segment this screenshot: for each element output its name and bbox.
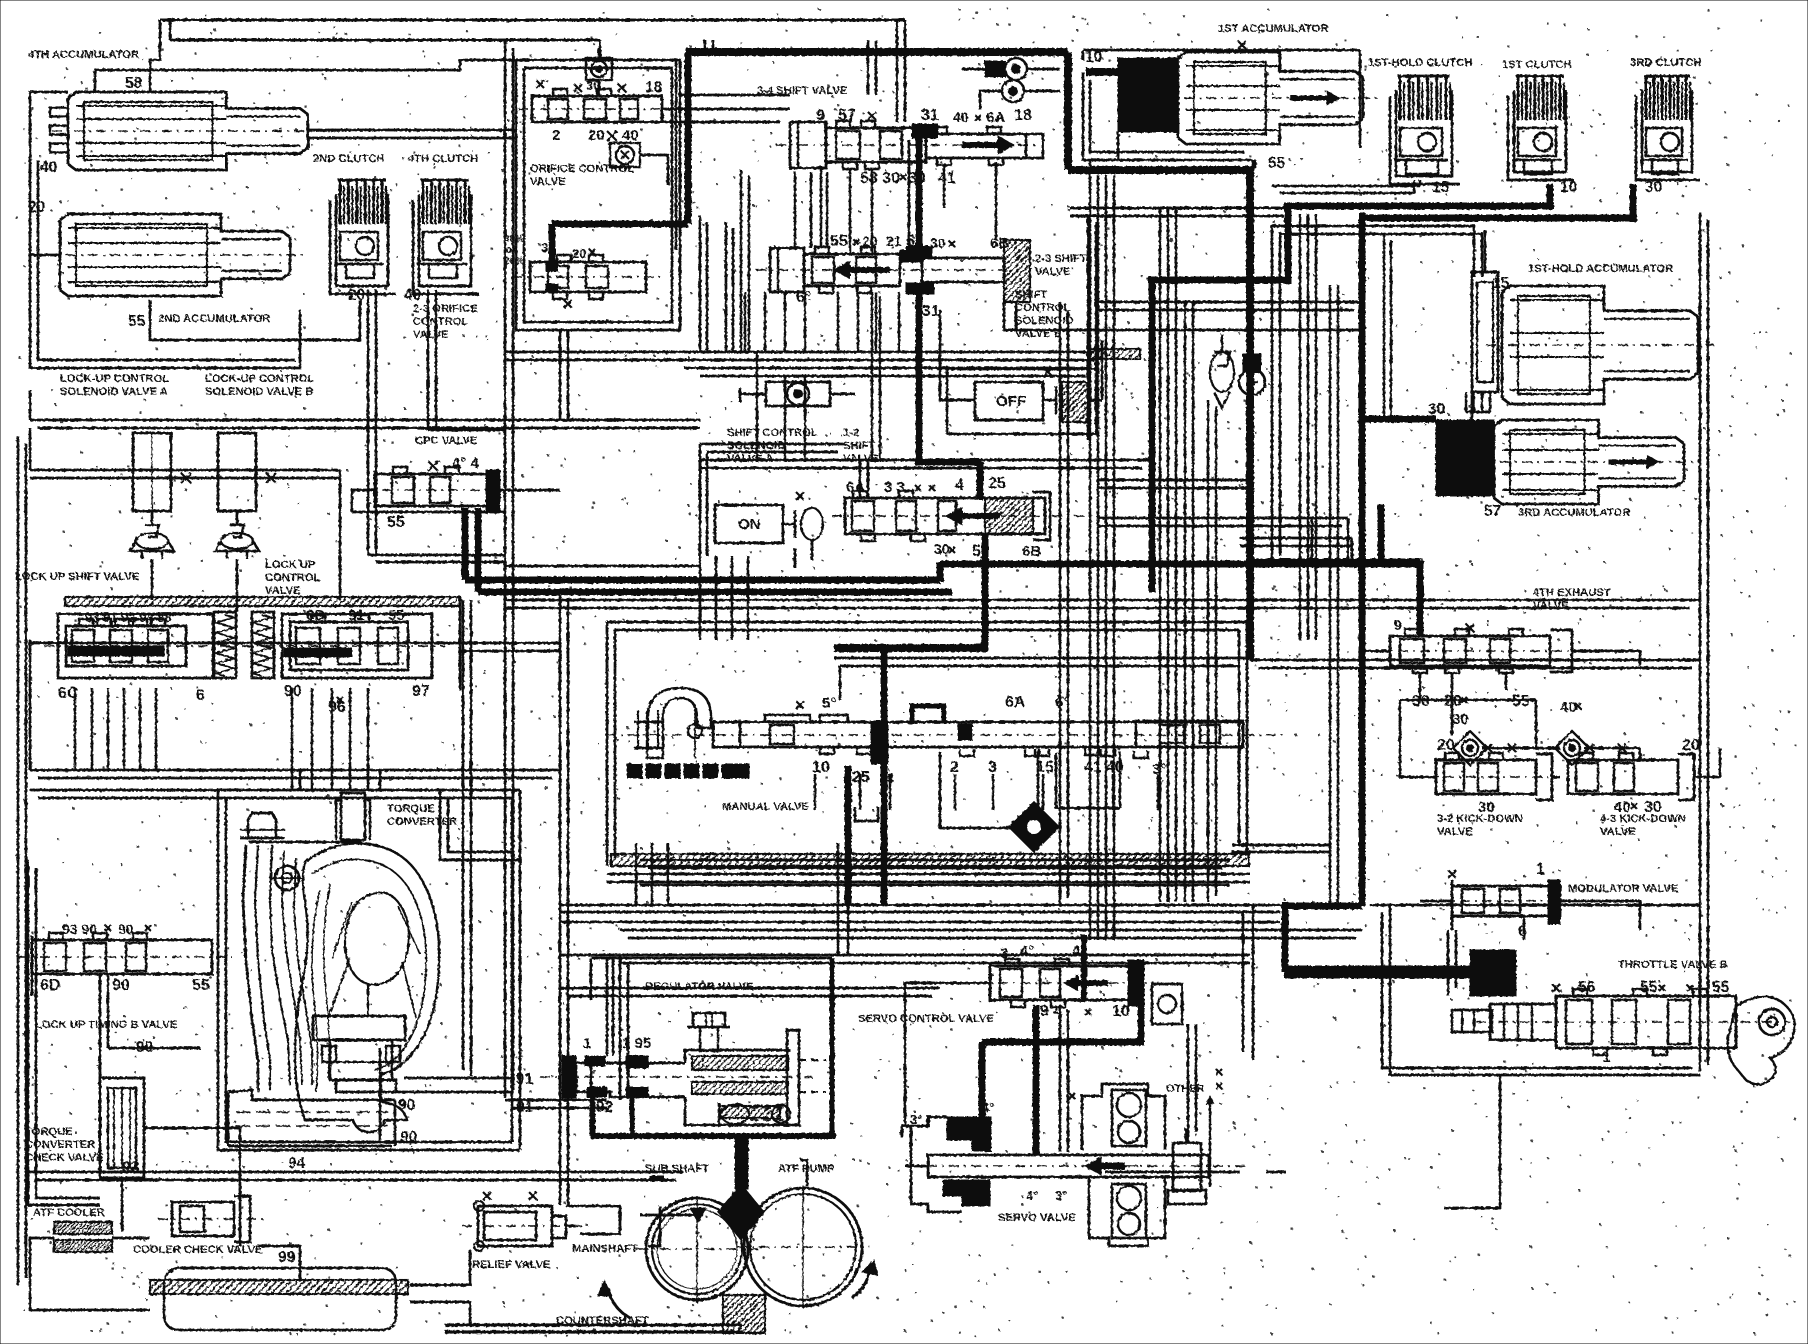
svg-text:LOCK-UP CONTROL: LOCK-UP CONTROL xyxy=(60,373,169,385)
svg-text:93 90: 93 90 xyxy=(62,921,97,937)
manual valve gear position boxes xyxy=(627,764,642,778)
horizontal pair y=1172 bottom left xyxy=(28,1171,683,1174)
regulator lower small piston xyxy=(718,1103,721,1125)
svg-text:SERVO VALVE: SERVO VALVE xyxy=(998,1212,1076,1224)
manual valve under-chambers xyxy=(940,752,1038,828)
valve 2-3 SHIFT VALVE xyxy=(770,248,804,292)
check valve below manual box xyxy=(1009,802,1060,853)
lock up valve dark spools xyxy=(68,646,164,656)
valve REGULATOR VALVE xyxy=(562,1056,576,1098)
throttle valve B left rod xyxy=(1452,1010,1492,1032)
torque converter top line xyxy=(249,841,362,844)
horizontal pair y=770 left xyxy=(30,769,560,772)
box around manual valve xyxy=(606,622,609,866)
torque converter left column xyxy=(243,845,258,1090)
svg-text:97: 97 xyxy=(412,683,430,700)
accumulator 4TH ACCUMULATOR xyxy=(68,92,308,114)
gear circle ATF pump xyxy=(744,1188,862,1306)
wires below clutches to trunk xyxy=(368,554,505,557)
clutch 1ST-HOLD CLUTCH xyxy=(1396,90,1452,176)
solenoid box ON xyxy=(715,505,783,543)
manual valve selector comb xyxy=(634,721,663,723)
long horizontal y=208 thin xyxy=(1070,207,1290,210)
svg-text:30: 30 xyxy=(1645,179,1662,196)
servo valve right bolt xyxy=(1173,1143,1201,1191)
wires modulator valve xyxy=(1420,900,1452,903)
servo valve shaft arrow xyxy=(1101,1163,1125,1170)
black block 3rd accumulator xyxy=(1436,420,1494,496)
wires right side verticals to throttle xyxy=(1390,905,1700,1075)
thick trunk from CPC valve down xyxy=(462,508,469,580)
misc wires top left to orifice xyxy=(460,60,516,70)
horizontal trunk y=930 xyxy=(620,929,1362,932)
valve ORIFICE CONTROL VALVE top xyxy=(532,96,662,122)
torque converter 91 90 wires xyxy=(404,1077,512,1080)
svg-text:25: 25 xyxy=(988,475,1006,492)
svg-text:3RD ACCUMULATOR: 3RD ACCUMULATOR xyxy=(1518,507,1630,519)
svg-text:57: 57 xyxy=(838,107,856,124)
svg-text:ATF COOLER: ATF COOLER xyxy=(33,1207,105,1219)
svg-text:55: 55 xyxy=(388,607,405,624)
svg-text:9: 9 xyxy=(1394,617,1402,633)
center vertical bundle xyxy=(1089,175,1092,940)
cam lever throttle valve B xyxy=(1728,996,1795,1084)
svg-text:2-3 SHIFT: 2-3 SHIFT xyxy=(1035,253,1087,265)
wire below regulator xyxy=(566,1205,620,1208)
svg-text:58: 58 xyxy=(125,75,143,92)
svg-text:CONTROL: CONTROL xyxy=(1015,302,1070,314)
thick vertical to 4th exhaust valve xyxy=(1417,562,1424,636)
manual valve thick port 1 bracket xyxy=(912,706,944,724)
svg-text:OTHER: OTHER xyxy=(1166,1083,1205,1095)
wires pump to regulator xyxy=(648,1206,660,1246)
wires y=845-852 right of manual box xyxy=(1232,844,1330,847)
torque converter bottom skirt xyxy=(228,1090,395,1100)
svg-text:5°: 5° xyxy=(822,695,836,712)
svg-text:30: 30 xyxy=(1452,711,1469,728)
svg-text:2-3 ORIFICE: 2-3 ORIFICE xyxy=(413,303,478,315)
wire 2nd clutch down xyxy=(367,290,370,555)
solenoid box OFF xyxy=(975,382,1043,420)
thick from 2-3 valve down to 1-2 valve port 25 xyxy=(916,290,923,462)
svg-text:20: 20 xyxy=(1437,737,1455,754)
wires under 1st-hold clutch thin xyxy=(1272,185,1420,188)
thick vertical through manual valve x=884 xyxy=(881,648,888,905)
wires from lockup area down-left xyxy=(29,640,32,770)
svg-text:15: 15 xyxy=(1432,179,1450,196)
wire solenoid A down xyxy=(151,559,154,600)
regulator valve port blocks xyxy=(585,1056,605,1066)
thick right-side feed to throttle xyxy=(1359,213,1366,906)
long horizontal bundle y=352 xyxy=(505,351,1094,354)
svg-text:40: 40 xyxy=(622,127,639,144)
right side pair y=302 xyxy=(1098,301,1360,304)
right side horizontal pairs y=518 xyxy=(1098,517,1348,520)
svg-text:96: 96 xyxy=(328,699,346,716)
horizontal trunk y=588 thin xyxy=(505,599,1700,602)
clutch 3RD CLUTCH xyxy=(1642,90,1692,172)
svg-text:31: 31 xyxy=(922,303,940,320)
svg-text:18: 18 xyxy=(1014,107,1032,124)
horizontal pair y=1100 left-of-regulator xyxy=(505,1099,607,1102)
regulator valve box xyxy=(830,958,835,1136)
wires servo valve right xyxy=(1230,1171,1240,1174)
wires servo area xyxy=(905,983,940,1126)
solenoid valve symbol right of ON box xyxy=(783,523,795,525)
wire 41 port down xyxy=(943,166,946,208)
svg-text:4°: 4° xyxy=(1020,943,1034,960)
wires 3-4 valve ports down xyxy=(849,170,852,254)
gear circle mainshaft xyxy=(646,1198,748,1300)
svg-text:4TH ACCUMULATOR: 4TH ACCUMULATOR xyxy=(28,49,139,61)
thick wire into throttle valve B xyxy=(1285,966,1485,978)
svg-text:1: 1 xyxy=(1602,1049,1611,1066)
thick stub 10 into 1st accumulator black block xyxy=(1086,68,1118,76)
svg-text:55: 55 xyxy=(1712,979,1730,996)
svg-text:31: 31 xyxy=(921,107,939,124)
vertical trunk x=560 xyxy=(559,592,562,1205)
wire network middle-left horizontals xyxy=(30,469,340,472)
svg-text:40: 40 xyxy=(1614,799,1631,816)
solenoid valve symbol right of OFF box xyxy=(1043,399,1056,401)
svg-text:4° 4: 4° 4 xyxy=(452,455,480,472)
torque converter extra inner curves xyxy=(312,890,320,1092)
box borders around 2-3 valve region xyxy=(699,216,702,352)
wire right of torque converter xyxy=(470,600,473,1076)
svg-text:of: of xyxy=(506,245,516,256)
svg-text:6C: 6C xyxy=(58,685,79,702)
svg-text:56: 56 xyxy=(1578,979,1596,996)
valve SERVO CONTROL VALVE xyxy=(989,962,992,1002)
svg-text:40: 40 xyxy=(40,159,57,176)
oil pan xyxy=(164,1268,396,1330)
svg-text:4°: 4° xyxy=(1026,1188,1038,1203)
svg-text:3: 3 xyxy=(1000,945,1008,962)
manual valve spool xyxy=(713,722,1243,747)
accumulator 2ND ACCUMULATOR xyxy=(60,214,290,237)
svg-text:10: 10 xyxy=(1560,179,1577,196)
svg-text:6B: 6B xyxy=(990,235,1009,252)
svg-text:3°: 3° xyxy=(1055,1188,1067,1203)
svg-text:6A: 6A xyxy=(986,109,1005,126)
svg-text:MODULATOR VALVE: MODULATOR VALVE xyxy=(1568,883,1679,895)
svg-text:57: 57 xyxy=(1484,503,1501,520)
check symbol right of servo control valve xyxy=(1152,984,1182,1024)
svg-text:TORQUE: TORQUE xyxy=(25,1126,73,1138)
valve 4TH EXHAUST VALVE xyxy=(1390,636,1550,666)
thick clutch feed lines xyxy=(1149,276,1156,592)
wire cpc to trunk xyxy=(500,489,560,492)
svg-text:6: 6 xyxy=(196,687,205,704)
svg-text:LOCK UP: LOCK UP xyxy=(265,559,316,571)
valve 2-3 orifice control valve (second orifice valve) xyxy=(530,262,646,292)
svg-text:CONTROL: CONTROL xyxy=(413,316,468,328)
svg-text:VALVE: VALVE xyxy=(265,585,301,597)
arrow pump rotation xyxy=(852,1268,870,1298)
verticals from 3-4 valve down to 2-3 area xyxy=(740,170,743,352)
thick elbow inside orifice box xyxy=(685,52,692,224)
svg-text:4TH EXHAUST: 4TH EXHAUST xyxy=(1533,587,1611,599)
right side pair y=480 xyxy=(1098,479,1250,482)
valve 4-3 KICK-DOWN VALVE xyxy=(1568,760,1678,794)
svg-text:6D: 6D xyxy=(40,977,60,994)
svg-text:LOCK-UP CONTROL: LOCK-UP CONTROL xyxy=(205,373,314,385)
svg-text:TORQUE: TORQUE xyxy=(387,803,435,815)
wire horizontals y=470 left of CPC xyxy=(352,511,505,514)
valve COOLER CHECK VALVE xyxy=(172,1202,234,1236)
check valve left of OFF box xyxy=(766,382,830,406)
servo valve shaft xyxy=(928,1155,1209,1177)
svg-text:3: 3 xyxy=(988,759,997,776)
svg-text:30: 30 xyxy=(586,78,600,93)
svg-text:CONTROL: CONTROL xyxy=(265,572,320,584)
svg-text:1ST-HOLD ACCUMULATOR: 1ST-HOLD ACCUMULATOR xyxy=(1528,263,1673,275)
valve LOCK UP TIMING B VALVE xyxy=(31,936,34,996)
wires OFF solenoid to 2-3 valve xyxy=(1101,340,1104,400)
box around ON solenoid xyxy=(700,443,845,446)
svg-text:VALVE: VALVE xyxy=(530,176,566,188)
valve TORQUE CONVERTER CHECK VALVE xyxy=(100,1078,144,1178)
wires y=643-660 horizontal group xyxy=(30,642,560,645)
svg-text:94: 94 xyxy=(288,1155,306,1172)
solenoid LOCK-UP CONTROL SOLENOID VALVE A xyxy=(133,433,171,511)
pump junction diamond xyxy=(718,1184,764,1240)
svg-text:VALVE: VALVE xyxy=(1035,266,1071,278)
svg-text:ORIFICE CONTROL: ORIFICE CONTROL xyxy=(530,163,634,175)
svg-text:SOLENOID VALVE B: SOLENOID VALVE B xyxy=(205,386,313,398)
svg-text:THROTTLE VALVE B: THROTTLE VALVE B xyxy=(1618,959,1728,971)
vertical cylinder left of 1st-hold accumulator xyxy=(1472,272,1498,392)
svg-text:10: 10 xyxy=(812,759,830,776)
torque converter hub circle xyxy=(275,866,299,890)
servo valve left bracket xyxy=(911,1117,962,1212)
wire servo valve bottom to right xyxy=(1105,1171,1230,1174)
wires 4th exhaust area xyxy=(1362,650,1390,653)
svg-text:MANUAL VALVE: MANUAL VALVE xyxy=(722,801,810,813)
wires above 1-2 valve xyxy=(794,548,797,568)
svg-text:30: 30 xyxy=(1478,799,1495,816)
svg-text:1: 1 xyxy=(583,1035,591,1052)
wires 2-3 valve ports down xyxy=(744,292,747,352)
svg-text:30: 30 xyxy=(541,240,555,255)
wire left box around TC xyxy=(28,860,100,1205)
svg-text:20: 20 xyxy=(1682,737,1700,754)
thick trunk from orifice valve to 1st accumulator xyxy=(686,48,1068,56)
wire vertical right of orifice box xyxy=(675,60,678,250)
wire lock-up solenoid feed from orifice box xyxy=(559,330,562,420)
thick wire regulator to pump xyxy=(735,1139,748,1189)
pilot valve pair near x=1230 xyxy=(1221,334,1224,352)
solenoid LOCK-UP CONTROL SOLENOID VALVE B xyxy=(218,433,256,511)
thick line under 1-2 shift valve xyxy=(982,534,989,650)
servo valve right guide line xyxy=(1209,1098,1211,1187)
horizontal trunk y=905 xyxy=(560,904,1285,907)
wire bundle below 1-2 valve to manual box xyxy=(699,556,702,640)
wire 55 from 1st accumulator down xyxy=(1254,160,1257,168)
regulator port drop wires xyxy=(591,1097,596,1133)
svg-text:1ST-HOLD CLUTCH: 1ST-HOLD CLUTCH xyxy=(1368,57,1472,69)
svg-text:90: 90 xyxy=(118,921,134,937)
wires around 2-3 orifice box xyxy=(680,94,790,97)
wire enclosure around accumulators xyxy=(95,70,460,92)
svg-text:LOCK UP SHIFT VALVE: LOCK UP SHIFT VALVE xyxy=(15,571,140,583)
wire between check balls xyxy=(1482,747,1560,750)
svg-text:6A: 6A xyxy=(1005,694,1026,711)
countershaft dark line xyxy=(445,1323,742,1326)
svg-text:10: 10 xyxy=(1085,49,1102,66)
arrow countershaft xyxy=(608,1288,630,1318)
torque converter outer dome xyxy=(295,843,439,1132)
wire top to 3-4 valve xyxy=(704,40,707,52)
svg-text:1ST ACCUMULATOR: 1ST ACCUMULATOR xyxy=(1218,23,1328,35)
svg-text:1-2: 1-2 xyxy=(843,427,859,439)
manual valve selector gate xyxy=(647,688,711,758)
svg-text:SOLENOID VALVE A: SOLENOID VALVE A xyxy=(60,386,168,398)
svg-text:90: 90 xyxy=(400,1129,417,1146)
manual valve bottom port bumps xyxy=(820,747,834,754)
svg-text:21: 21 xyxy=(886,233,902,249)
valve LOCK UP CONTROL VALVE body xyxy=(282,614,432,678)
svg-text:4: 4 xyxy=(955,477,964,494)
torque converter mid box xyxy=(313,1016,405,1040)
valve THROTTLE VALVE B xyxy=(1476,1021,1790,1023)
accumulator 3RD ACCUMULATOR xyxy=(1494,420,1684,444)
svg-text:18: 18 xyxy=(645,79,663,96)
wires from black block bottom xyxy=(1117,132,1120,160)
svg-text:3°: 3° xyxy=(910,1112,922,1127)
wires kick-down valves xyxy=(1400,700,1436,777)
svg-text:CPC VALVE: CPC VALVE xyxy=(415,435,478,447)
svg-text:55: 55 xyxy=(1640,979,1658,996)
thick from 3rd accumulator block left xyxy=(1362,416,1436,423)
svg-text:55: 55 xyxy=(387,514,405,531)
verticals x=1060 and 1208 xyxy=(1059,302,1062,905)
servo valve bottom mechanism xyxy=(1089,1177,1165,1246)
svg-text:30: 30 xyxy=(1428,401,1445,418)
thick vertical from 3-4 valve port 31 to 2-3 valve xyxy=(916,136,923,248)
box around orifice control valves xyxy=(516,60,680,330)
ball check valves right of 3-4 valve xyxy=(985,61,1005,77)
wires manual valve bottom ports xyxy=(814,774,817,810)
wire box around 1st accumulator xyxy=(1083,72,1252,160)
clutch 2ND CLUTCH xyxy=(336,194,388,286)
thick below 3rd accumulator block xyxy=(1378,504,1385,564)
wires around OFF solenoid xyxy=(1088,399,1102,402)
wire horizontals y=560 area xyxy=(505,565,700,568)
svg-text:2ND ACCUMULATOR: 2ND ACCUMULATOR xyxy=(158,313,270,325)
thick servo control feed xyxy=(1138,1002,1145,1042)
wire solenoid B down xyxy=(236,559,239,612)
valve 3-2 KICK-DOWN VALVE xyxy=(1436,760,1536,794)
torque converter box wires xyxy=(218,790,520,1150)
servo valve top mechanism xyxy=(1082,1084,1165,1150)
wire regulator feed from pump top xyxy=(739,1206,742,1226)
svg-text:30: 30 xyxy=(1644,799,1662,816)
svg-text:SOLENOID: SOLENOID xyxy=(1015,315,1073,327)
valve 3-4 SHIFT VALVE xyxy=(790,122,826,168)
valve RELIEF VALVE xyxy=(478,1206,552,1246)
wire from 4th accumulator to top xyxy=(169,20,172,40)
extra horizontals y=922,963 xyxy=(560,921,1280,924)
svg-text:LOCK UP TIMING B VALVE: LOCK UP TIMING B VALVE xyxy=(35,1019,178,1031)
check valve under orifice valve xyxy=(610,143,640,167)
wires torque converter feeds xyxy=(440,790,520,860)
box around OFF solenoid xyxy=(947,369,1098,434)
svg-text:VALVE: VALVE xyxy=(1533,600,1569,612)
wire y=700 right xyxy=(1400,699,1536,702)
svg-text:SERVO CONTROL VALVE: SERVO CONTROL VALVE xyxy=(858,1013,994,1025)
svg-text:5: 5 xyxy=(972,543,981,560)
svg-text:91: 91 xyxy=(348,607,365,624)
wire top second xyxy=(170,39,600,42)
left vertical pair far left xyxy=(17,436,20,1285)
svg-text:1ST CLUTCH: 1ST CLUTCH xyxy=(1502,59,1572,71)
torque converter inner egg xyxy=(345,892,409,984)
svg-text:40: 40 xyxy=(953,109,969,125)
svg-text:6: 6 xyxy=(1518,923,1527,940)
svg-text:90: 90 xyxy=(398,1097,415,1114)
clutch 1ST CLUTCH xyxy=(1514,90,1566,172)
svg-text:2ND CLUTCH: 2ND CLUTCH xyxy=(313,153,384,165)
svg-text:99: 99 xyxy=(278,1249,296,1266)
black block 1st accumulator xyxy=(1118,58,1178,132)
svg-text:COOLER CHECK VALVE: COOLER CHECK VALVE xyxy=(133,1244,263,1256)
thick horizontal inside manual box xyxy=(834,644,988,652)
manual valve inner box right xyxy=(834,657,1247,660)
svg-text:55: 55 xyxy=(128,313,146,330)
wires bottom area xyxy=(379,1048,382,1140)
svg-text:10: 10 xyxy=(1112,1003,1130,1020)
svg-text:55: 55 xyxy=(192,977,210,994)
wire top left double xyxy=(160,19,905,22)
svg-text:3 3: 3 3 xyxy=(884,479,905,496)
svg-text:9: 9 xyxy=(816,107,825,124)
svg-text:MAINSHAFT: MAINSHAFT xyxy=(572,1243,638,1255)
svg-text:20: 20 xyxy=(588,127,605,144)
svg-text:40: 40 xyxy=(1560,699,1577,716)
wires accumulator 1st-hold xyxy=(1484,230,1487,262)
left feeder horizontals y=420s xyxy=(30,419,700,422)
svg-text:6B: 6B xyxy=(1022,543,1041,560)
svg-text:ON: ON xyxy=(738,516,761,533)
wires top right box xyxy=(1359,50,1362,148)
wires manual valve lower horizontals xyxy=(640,859,1230,862)
svg-text:1 95: 1 95 xyxy=(622,1035,651,1052)
svg-text:20: 20 xyxy=(572,246,586,261)
accumulator 1ST-HOLD ACCUMULATOR xyxy=(1502,286,1698,317)
svg-text:91: 91 xyxy=(516,1071,534,1088)
right bundle x=1300 xyxy=(1299,214,1302,640)
wire 4th clutch down xyxy=(427,290,430,430)
horizontal trunk y=955 xyxy=(560,954,1250,957)
right vertical trunk x=1700 xyxy=(1699,212,1702,1072)
svg-text:SHIFT: SHIFT xyxy=(1015,289,1047,301)
svg-text:VALVE: VALVE xyxy=(1437,826,1473,838)
valve CPC VALVE xyxy=(374,470,377,508)
wires 1st-hold accumulator cylinder to trunk xyxy=(1272,226,1474,562)
fingers below 1st-hold cylinder xyxy=(1465,392,1467,412)
torque converter lower assembly xyxy=(330,1040,392,1080)
horizontal pair y=988 mid-bottom xyxy=(560,987,940,990)
svg-text:90: 90 xyxy=(112,977,130,994)
valve 1-2 SHIFT VALVE xyxy=(845,498,1045,534)
svg-text:6A: 6A xyxy=(846,479,865,496)
svg-text:OFF: OFF xyxy=(996,393,1026,410)
svg-text:6°: 6° xyxy=(796,289,811,306)
svg-text:90: 90 xyxy=(284,683,302,700)
svg-text:2: 2 xyxy=(552,127,560,144)
regulator valve bolt top xyxy=(693,1013,725,1027)
